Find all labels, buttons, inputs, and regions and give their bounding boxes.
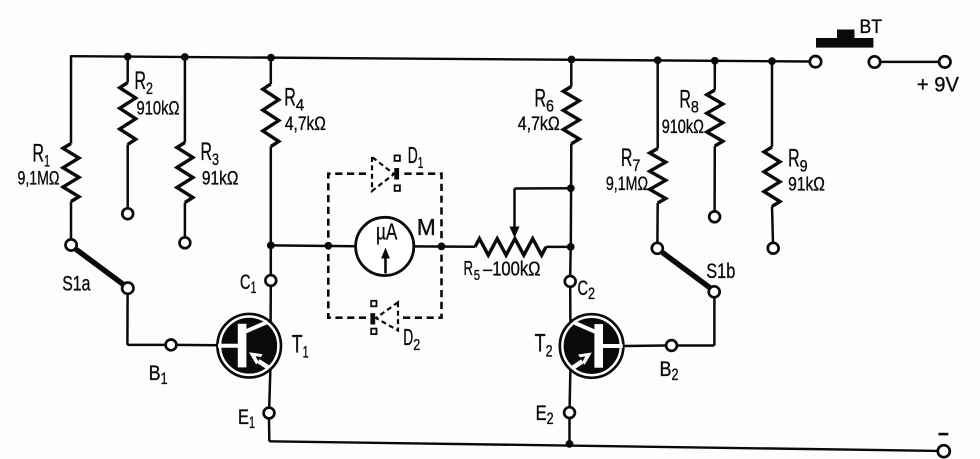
- svg-text:R: R: [679, 86, 691, 114]
- wire C1 junction down to C1 terminal: [270, 245, 273, 275]
- R8 label 910k&#937;: [662, 86, 704, 138]
- svg-text:D: D: [403, 324, 413, 350]
- R4 label 4,7k&#937;: [284, 84, 326, 136]
- diode D1 (dashed symbol on top edge): [372, 155, 400, 191]
- svg-text:–100kΩ: –100kΩ: [483, 258, 541, 280]
- diode D2 (dashed symbol on bottom edge, pointing left): [370, 301, 398, 334]
- transistor T2 (PNP mirrored, in black disc): [560, 314, 623, 377]
- junction R5 right / collector line: [567, 243, 575, 251]
- svg-text:1: 1: [303, 342, 309, 361]
- S1a label: [62, 272, 90, 296]
- R7 label 9,1M&#937;: [606, 144, 648, 195]
- terminal BT left: [810, 56, 821, 67]
- svg-text:S1b: S1b: [706, 259, 735, 283]
- wire C1 to T1 collector: [269, 286, 272, 323]
- R5 wiper arrowhead: [509, 227, 519, 239]
- svg-text:C: C: [240, 271, 251, 294]
- junction R9/top rail: [768, 57, 776, 65]
- wire meter to R5: [414, 245, 475, 248]
- svg-text:9,1MΩ: 9,1MΩ: [606, 174, 648, 195]
- svg-text:1: 1: [44, 151, 50, 170]
- wire R1 bottom lead: [70, 202, 73, 240]
- bottom rail wire (- return rail): [269, 441, 937, 451]
- svg-text:2: 2: [588, 285, 595, 303]
- C2 label: [578, 277, 596, 303]
- svg-text:B: B: [660, 358, 672, 381]
- svg-text:8: 8: [691, 98, 699, 117]
- terminal E2: [564, 407, 575, 418]
- svg-text:2: 2: [546, 342, 553, 361]
- wire R7 top lead: [656, 60, 659, 148]
- svg-text:4,7kΩ: 4,7kΩ: [285, 114, 326, 135]
- wire R8 top lead: [714, 61, 717, 90]
- svg-text:E: E: [238, 406, 249, 429]
- wire R3 top lead: [184, 57, 187, 143]
- wire R2 top lead: [126, 57, 129, 83]
- junction R2/top rail: [124, 53, 132, 61]
- svg-text:910kΩ: 910kΩ: [662, 117, 704, 138]
- junction wiper/collector line: [567, 184, 575, 192]
- svg-text:M: M: [417, 214, 436, 240]
- wire R1 top lead (left drop from rail): [70, 55, 73, 143]
- svg-text:T: T: [535, 330, 546, 358]
- svg-text:2: 2: [146, 79, 153, 98]
- junction E2/bottom rail: [566, 440, 574, 448]
- svg-text:R: R: [621, 144, 633, 172]
- resistor R8: [707, 90, 723, 146]
- svg-text:2: 2: [672, 366, 679, 384]
- D1 label: [408, 142, 424, 172]
- wire R4 bottom lead to C1 junction: [270, 147, 273, 246]
- svg-text:R: R: [135, 67, 147, 95]
- terminal R3 bottom: [180, 237, 191, 248]
- switch S1b: [652, 243, 720, 297]
- svg-text:R: R: [201, 138, 213, 166]
- svg-text:µA: µA: [376, 218, 398, 244]
- wire R5 right lead: [546, 246, 571, 249]
- wire R9 bottom lead: [772, 206, 773, 243]
- svg-text:1: 1: [249, 414, 255, 432]
- D2 label: [403, 324, 420, 354]
- wire C2 to T2 collector: [569, 287, 572, 323]
- wire S1a to B1: [127, 294, 165, 345]
- svg-text:BT: BT: [860, 17, 883, 38]
- meter M (microammeter): [356, 217, 414, 275]
- junction node C1 branch: [267, 242, 275, 250]
- transistor T1 (PNP, in black disc): [218, 314, 281, 377]
- svg-text:R: R: [535, 85, 547, 113]
- svg-text:R: R: [284, 84, 296, 112]
- wire B1 to T1 base: [176, 344, 218, 347]
- junction wire/dashed-box right edge: [438, 243, 446, 251]
- terminal - (minus output): [938, 445, 950, 457]
- terminal R8 bottom: [709, 211, 720, 222]
- wire collector line to C2 terminal: [569, 247, 572, 276]
- junction wire/dashed-box left edge: [324, 242, 332, 250]
- wire E2 to bottom rail: [568, 418, 571, 444]
- terminal B1: [166, 340, 177, 351]
- terminal +9V: [939, 56, 950, 67]
- svg-text:91kΩ: 91kΩ: [202, 168, 239, 189]
- R9 label 91k&#937;: [788, 145, 825, 196]
- svg-text:1: 1: [161, 370, 168, 388]
- R5 wiper arm wire: [515, 188, 571, 230]
- svg-text:4: 4: [296, 96, 305, 115]
- R2 label 910k&#937;: [135, 67, 180, 120]
- wire R9 top lead: [771, 61, 774, 147]
- svg-text:D: D: [408, 142, 418, 168]
- resistor R9: [764, 147, 780, 206]
- M label: [417, 214, 436, 240]
- svg-text:7: 7: [632, 156, 640, 175]
- terminal C1: [265, 275, 276, 286]
- svg-text:E: E: [536, 402, 547, 425]
- svg-text:9: 9: [800, 157, 808, 176]
- resistor R4: [263, 84, 279, 147]
- wire R3 bottom lead: [184, 203, 187, 238]
- svg-text:2: 2: [547, 410, 554, 428]
- svg-text:1: 1: [418, 155, 424, 172]
- junction R4/top rail: [267, 54, 275, 62]
- resistor R2: [120, 83, 136, 145]
- wire T2 emitter to E2 terminal: [568, 369, 571, 407]
- R3 label 91k&#937;: [201, 138, 239, 189]
- svg-text:910kΩ: 910kΩ: [137, 99, 180, 120]
- BT label: [860, 17, 883, 38]
- wire T1 emitter to E1 terminal: [269, 369, 270, 408]
- svg-text:91kΩ: 91kΩ: [788, 174, 825, 195]
- minus label: [939, 433, 949, 436]
- resistor R1: [63, 144, 79, 202]
- svg-text:9,1MΩ: 9,1MΩ: [18, 169, 60, 190]
- svg-text:2: 2: [413, 337, 420, 354]
- svg-text:R: R: [33, 139, 45, 167]
- E2 label: [536, 402, 554, 428]
- junction R3/top rail: [181, 53, 189, 61]
- wire R6 bottom lead to wiper junction and C2: [570, 144, 573, 247]
- wire R2 bottom lead: [126, 145, 129, 209]
- svg-text:3: 3: [212, 150, 219, 169]
- terminal C2: [565, 276, 576, 287]
- wire B2 to T2 base: [623, 344, 666, 347]
- terminal B2: [666, 340, 677, 351]
- dashed probe box around meter: [328, 174, 441, 318]
- B2 label: [660, 358, 679, 384]
- R5 value label R5-100k: [464, 258, 541, 284]
- C1 label: [240, 271, 257, 297]
- terminal E1: [264, 408, 275, 419]
- resistor R7: [650, 149, 666, 204]
- wire BT to +9V terminal: [880, 61, 939, 64]
- wire junction to meter (left): [271, 244, 356, 247]
- junction R8/top rail: [711, 57, 719, 65]
- wire R4 top lead: [270, 58, 273, 84]
- svg-text:S1a: S1a: [62, 272, 90, 296]
- switch S1a: [66, 239, 134, 294]
- terminal R9 bottom: [768, 243, 779, 254]
- T1 label: [292, 330, 309, 361]
- svg-text:1: 1: [251, 279, 257, 297]
- S1b label: [706, 259, 735, 283]
- svg-text:R: R: [464, 258, 474, 280]
- svg-text:6: 6: [546, 97, 554, 116]
- R6 label 4,7k&#937;: [518, 85, 560, 135]
- wire S1b to B2: [677, 297, 714, 345]
- svg-text:T: T: [292, 330, 303, 358]
- E1 label: [238, 406, 255, 432]
- junction R6/top rail: [568, 56, 576, 64]
- svg-text:5: 5: [474, 267, 480, 284]
- wire R7 bottom lead: [656, 203, 659, 243]
- B1 label: [149, 362, 168, 388]
- svg-text:C: C: [578, 277, 589, 300]
- wire R8 bottom lead: [713, 146, 716, 211]
- svg-text:B: B: [149, 362, 161, 385]
- svg-text:4,7kΩ: 4,7kΩ: [518, 114, 560, 135]
- junction R7/top rail: [654, 56, 662, 64]
- top rail wire (+ supply rail): [71, 56, 810, 61]
- pushbutton BT: [816, 30, 873, 48]
- wire R6 top lead: [570, 60, 573, 87]
- svg-text:R: R: [788, 145, 800, 173]
- +9V label: [917, 74, 959, 97]
- terminal BT right: [869, 56, 880, 67]
- potentiometer R5 (rheostat): [475, 239, 546, 256]
- terminal R2 bottom: [122, 208, 133, 219]
- svg-text:+ 9V: + 9V: [917, 74, 959, 97]
- R1 label 9,1M&#937;: [18, 139, 60, 189]
- resistor R3: [177, 143, 193, 203]
- resistor R6: [563, 87, 579, 144]
- wire E1 to bottom rail: [268, 418, 271, 441]
- T2 label: [535, 330, 553, 361]
